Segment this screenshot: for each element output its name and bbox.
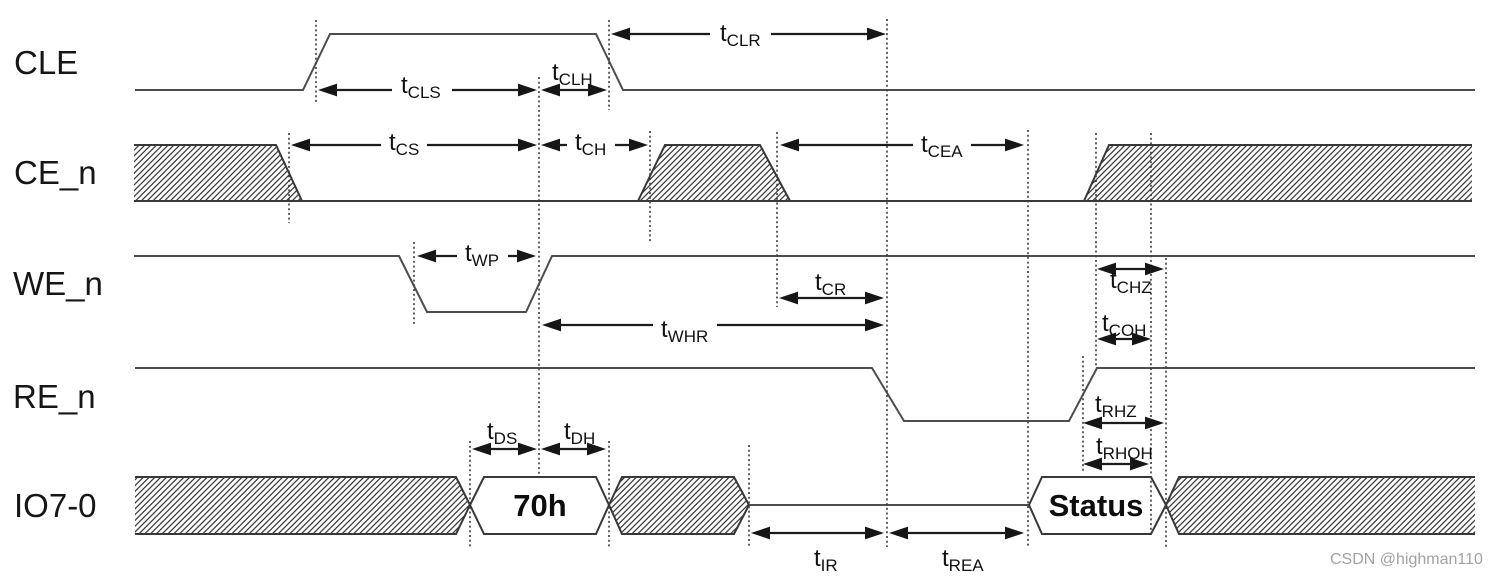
dimension arrow tWHR: [542, 316, 884, 346]
dimension arrow tIR: [751, 527, 884, 575]
dimension arrow tCEA: [780, 131, 1024, 161]
svg-text:CSDN @highman110: CSDN @highman110: [1330, 551, 1483, 568]
IO7-0 hatched invalid segment 3 (right): [1166, 477, 1475, 534]
RE_n waveform: high, low pulse, high: [135, 368, 1475, 421]
CE_n low baseline wire: [134, 200, 1472, 202]
dimension arrow tCH: [541, 129, 648, 159]
dimension arrow tDH: [541, 418, 606, 455]
dotted marker Status data end x=1151: [1150, 133, 1152, 533]
dotted marker tDS start x=470: [469, 441, 471, 548]
dimension arrow tWP: [417, 240, 536, 270]
dimension arrow tDS: [472, 418, 537, 455]
dotted marker tDH end x=609: [608, 441, 610, 548]
dotted marker CE_n falling edge x=289: [288, 133, 290, 223]
svg-text:CLE: CLE: [14, 44, 78, 81]
CE_n hatched high block 3 (right): [1084, 145, 1472, 201]
dimension arrow tCLH: [541, 59, 607, 96]
dimension arrow tCS: [291, 129, 537, 159]
dimension arrow tCLS: [318, 72, 537, 102]
IO7-0 hatched invalid segment 2 (after 70h): [609, 477, 749, 534]
svg-text:WE_n: WE_n: [13, 265, 103, 302]
IO7-0 high-impedance mid line: [749, 504, 1029, 506]
CE_n hatched high block 1 (left): [134, 145, 302, 201]
dotted marker RE_n rise x=1083: [1082, 356, 1084, 472]
IO7-0 data hexagon Status: [1029, 477, 1166, 534]
dimension arrow tCLR: [611, 20, 886, 50]
WE_n waveform: high, low pulse, high: [134, 256, 1475, 312]
dimension arrow tREA: [889, 527, 1024, 575]
svg-text:Status: Status: [1049, 488, 1144, 523]
dotted marker RE_n fall x=887 (full height): [886, 19, 888, 547]
dotted marker bus release x=1166: [1165, 258, 1167, 547]
dotted marker tIR start x=749: [748, 445, 750, 547]
dotted marker WE_n falling edge x=414: [413, 242, 415, 326]
svg-text:RE_n: RE_n: [13, 378, 96, 415]
dimension arrow tRHOH: [1083, 433, 1153, 470]
dotted marker tCEA end / Status start x=1028: [1027, 130, 1029, 547]
svg-text:CE_n: CE_n: [14, 154, 97, 191]
dotted marker CLE falling edge x=609: [608, 20, 610, 110]
dimension arrow tCOH: [1097, 310, 1151, 345]
dimension arrow tCHZ: [1097, 263, 1164, 297]
dimension arrow tCR: [779, 269, 884, 304]
dotted marker tCH end x=650: [649, 131, 651, 242]
svg-text:IO7-0: IO7-0: [14, 487, 97, 524]
dimension arrow tRHZ: [1083, 391, 1164, 429]
CLE waveform: low, rise, high pulse, fall, low: [135, 34, 1475, 90]
IO7-0 hatched invalid segment 1 (left): [135, 477, 470, 534]
dotted marker CE_n pulse fall x=777: [776, 132, 778, 307]
dotted marker CLE rising edge x=316: [315, 20, 317, 102]
IO7-0 data hexagon 70h: [470, 477, 609, 534]
CE_n hatched pulse block 2 (middle): [638, 145, 790, 201]
svg-text:70h: 70h: [513, 488, 566, 523]
dotted marker WE_n rising edge x=539 (full height): [538, 77, 540, 477]
dotted marker CE_n rise x=1096: [1095, 133, 1097, 368]
